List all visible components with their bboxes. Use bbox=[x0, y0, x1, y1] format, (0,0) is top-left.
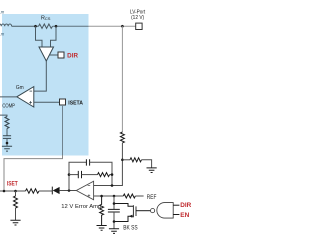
wire bbox=[110, 174, 112, 176]
node soft start tap bbox=[113, 195, 116, 198]
wire top rail right bbox=[53, 25, 89, 27]
minus mark error amp bbox=[88, 184, 91, 186]
capacitor soft start bbox=[108, 209, 120, 212]
node ISET bbox=[3, 190, 6, 193]
svg-text:RCS: RCS bbox=[41, 16, 51, 22]
svg-text:DIR: DIR bbox=[180, 203, 192, 209]
wire to ground bbox=[142, 160, 152, 168]
resistor lower feedback bbox=[100, 196, 104, 225]
wire bbox=[6, 129, 8, 136]
resistor comp bbox=[98, 173, 110, 177]
wire REF stub bbox=[135, 195, 143, 197]
wire comp bottom bbox=[69, 174, 78, 176]
wire bbox=[15, 208, 17, 220]
wire error amp non-inverting input bbox=[94, 195, 124, 197]
wire ISETA to ISET lower bbox=[4, 155, 63, 191]
wire CSA to DIR bbox=[50, 54, 58, 56]
wire soft start rail bbox=[113, 196, 115, 209]
svg-text:ISETA: ISETA bbox=[68, 101, 83, 107]
wire CSA left tap bbox=[36, 26, 43, 47]
wire top rail to LV port bbox=[89, 25, 136, 27]
wire bbox=[39, 190, 52, 192]
wire ISETA to ISET bbox=[62, 105, 64, 156]
wire compensation left vertical bbox=[69, 162, 86, 190]
wire bbox=[6, 138, 8, 146]
svg-text:ISET: ISET bbox=[7, 182, 18, 188]
resistor divider top bbox=[120, 132, 124, 143]
node LV rail tap bbox=[121, 25, 124, 28]
terminal LV-Port bbox=[136, 23, 142, 29]
resistor Rcs bbox=[39, 24, 53, 28]
node comp to input bbox=[111, 184, 114, 187]
controller block background bbox=[2, 14, 89, 156]
nand output bubble bbox=[151, 209, 155, 213]
wire nand input DIR bbox=[173, 204, 179, 206]
svg-text:REF: REF bbox=[147, 194, 157, 201]
resistor ISET pulldown bbox=[14, 196, 18, 208]
wire LV divider rail bbox=[121, 26, 123, 132]
op-amp 12V error amp bbox=[76, 181, 93, 200]
wire bbox=[121, 143, 123, 160]
svg-text:DIR: DIR bbox=[67, 53, 78, 59]
wire comp top right bbox=[90, 162, 112, 185]
nand gate body bbox=[157, 203, 173, 219]
node COMP gnd bbox=[6, 142, 9, 145]
ground ISET bbox=[10, 220, 20, 225]
terminal DIR bbox=[58, 52, 64, 58]
op-amp CSA (current sense) bbox=[39, 47, 54, 61]
wire bbox=[113, 212, 115, 229]
plus mark Gm bbox=[29, 101, 32, 104]
node error amp output bbox=[68, 189, 71, 192]
node feedback resistor tap bbox=[100, 195, 103, 198]
resistor COMP filter bbox=[5, 117, 9, 129]
wire mosfet gate lead bbox=[136, 210, 150, 212]
node Rcs left bbox=[34, 25, 37, 28]
svg-text:(12 V): (12 V) bbox=[131, 15, 144, 21]
wire mosfet source lead bbox=[114, 216, 133, 221]
capacitor comp top bbox=[86, 159, 89, 165]
capacitor COMP filter bbox=[3, 136, 11, 139]
svg-text:12 V Error Amp: 12 V Error Amp bbox=[61, 204, 101, 210]
resistor ISET series bbox=[26, 189, 40, 193]
terminal ISETA bbox=[60, 99, 66, 105]
node comp bottom left bbox=[68, 173, 71, 176]
node Rcs right bbox=[55, 25, 58, 28]
wire COMP bbox=[0, 115, 7, 116]
ground lower feedback bbox=[97, 226, 107, 231]
wire bbox=[15, 191, 17, 196]
wire ISET stub bbox=[0, 190, 26, 192]
wire divider to lower resistor bbox=[122, 159, 130, 161]
wire top rail bbox=[12, 25, 39, 27]
plus mark error amp bbox=[88, 194, 91, 197]
ground soft start bbox=[109, 229, 119, 234]
wire Gm output bbox=[0, 96, 17, 98]
minus mark Gm bbox=[30, 90, 33, 92]
mosfet channel bbox=[132, 205, 134, 217]
wire bbox=[82, 174, 98, 176]
wire nand input EN bbox=[173, 214, 179, 216]
node ISET divider bbox=[14, 190, 17, 193]
mosfet gate bar bbox=[135, 206, 137, 216]
resistor divider bottom bbox=[130, 158, 141, 162]
wire error amp inverting input bbox=[94, 160, 123, 186]
inductor Lm bbox=[0, 24, 12, 26]
wire CSA right tap bbox=[51, 26, 57, 47]
svg-text:BK SS: BK SS bbox=[123, 226, 137, 232]
svg-text:EN: EN bbox=[180, 213, 189, 219]
node divider bbox=[121, 159, 124, 162]
svg-text:COMP: COMP bbox=[2, 104, 15, 110]
resistor REF 8k bbox=[123, 194, 135, 198]
node mosfet source tap bbox=[113, 220, 116, 223]
wire Gm plus input to ISETA bbox=[34, 101, 60, 103]
op-amp Gm bbox=[17, 87, 34, 107]
wire bbox=[60, 190, 77, 192]
node mosfet drain tap bbox=[113, 202, 116, 205]
wire mosfet drain lead bbox=[114, 204, 133, 207]
wire CSA output to Gm bbox=[34, 61, 46, 91]
node comp bottom right bbox=[111, 173, 114, 176]
diode bbox=[51, 187, 53, 195]
ground divider bbox=[147, 168, 157, 173]
mosfet source arrow bbox=[129, 215, 133, 218]
ground COMP bbox=[2, 146, 12, 151]
svg-text:Gm: Gm bbox=[16, 85, 24, 91]
capacitor comp bottom bbox=[78, 171, 81, 178]
